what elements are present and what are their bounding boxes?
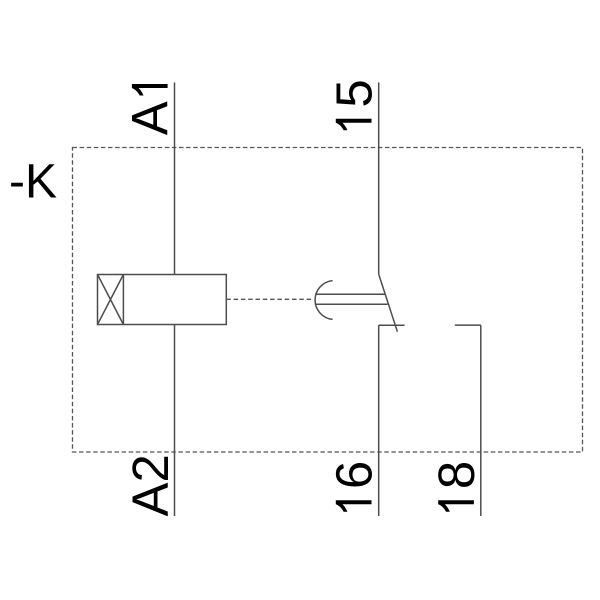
svg-text:-K: -K xyxy=(9,156,57,209)
svg-text:A2: A2 xyxy=(122,454,179,516)
svg-text:6: 6 xyxy=(326,461,383,489)
svg-text:A: A xyxy=(122,101,179,135)
svg-text:8: 8 xyxy=(428,461,485,489)
svg-text:5: 5 xyxy=(326,79,383,107)
